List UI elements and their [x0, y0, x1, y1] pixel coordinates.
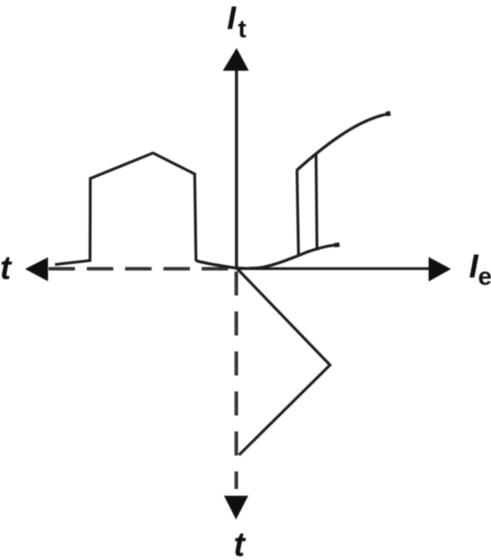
switching transition right vertical line [316, 153, 317, 251]
characteristic upper (on-state) branch [297, 114, 391, 171]
svg-text:t: t [234, 526, 247, 560]
horizontal axis right (I_e axis) [236, 257, 451, 282]
svg-text:e: e [478, 263, 491, 291]
dashed vertical time axis (below origin) [224, 272, 248, 520]
upper branch curve blunt end cap [386, 111, 391, 116]
svg-text:t: t [238, 16, 247, 44]
input trigger pulse waveform (left, plotted vs t) [55, 153, 196, 265]
label I_e [469, 248, 491, 292]
lower branch curve blunt end cap [335, 242, 340, 247]
switching transition left vertical line [297, 171, 299, 256]
svg-text:t: t [0, 249, 13, 286]
dashed horizontal time axis (left of origin) [25, 257, 236, 281]
vertical axis (I_t axis) [223, 48, 249, 269]
output current triangle waveform (bottom, plotted vs t) [237, 269, 330, 456]
characteristic lower (off-state) branch through origin [196, 245, 339, 269]
svg-text:I: I [227, 0, 237, 36]
label I_t [227, 0, 247, 44]
